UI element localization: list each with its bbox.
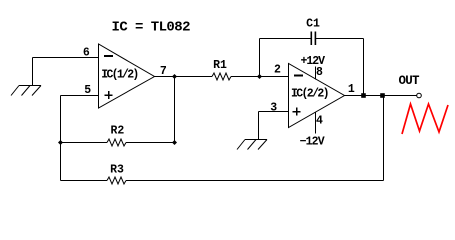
svg-text:4: 4 [316, 115, 323, 128]
svg-text:5: 5 [84, 84, 91, 97]
svg-text:1: 1 [348, 83, 355, 96]
svg-text:6: 6 [83, 47, 90, 60]
svg-text:R3: R3 [110, 164, 124, 177]
svg-text:IC(2/2): IC(2/2) [291, 88, 330, 101]
svg-text:−12V: −12V [300, 136, 325, 149]
svg-text:3: 3 [270, 102, 277, 115]
svg-text:7: 7 [160, 65, 167, 78]
svg-text:IC(1/2): IC(1/2) [101, 69, 139, 82]
svg-text:8: 8 [316, 66, 323, 79]
svg-text:OUT: OUT [399, 74, 420, 88]
svg-text:IC = TL082: IC = TL082 [112, 20, 191, 36]
svg-text:R2: R2 [110, 125, 124, 138]
svg-text:R1: R1 [213, 59, 227, 72]
svg-text:C1: C1 [306, 18, 320, 31]
svg-text:2: 2 [274, 64, 281, 77]
